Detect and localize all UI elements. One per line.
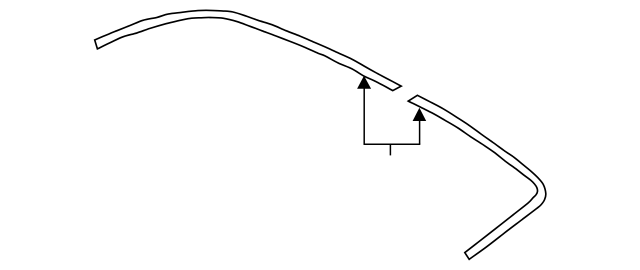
item leader tick (389, 144, 391, 156)
bracket horizontal (364, 143, 421, 145)
roof molding strip, right segment (408, 95, 546, 259)
arrow 2 shaft (419, 119, 421, 144)
arrow 2 head (413, 108, 427, 121)
arrow 1 head (357, 76, 371, 89)
arrow 1 shaft (363, 88, 365, 145)
roof molding strip, left segment (95, 10, 402, 90)
